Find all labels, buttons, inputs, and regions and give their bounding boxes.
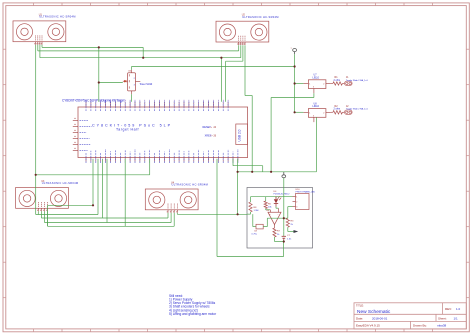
- svg-text:2: 2: [296, 202, 297, 204]
- svg-text:Date:: Date:: [356, 316, 363, 320]
- sub-circuit box outline: [247, 188, 313, 249]
- motor driver block U7 + resistor R1 + connector J1: [308, 80, 326, 89]
- svg-text:1.0: 1.0: [456, 307, 461, 311]
- svg-text:CY8CKIT-059 PSoC 5LP Prototypi: CY8CKIT-059 PSoC 5LP Prototyping Kit Tar…: [62, 99, 125, 103]
- motor driver block U8 + resistor R2 + connector J2: [308, 109, 326, 118]
- junction dot at (294.6,83.5): [294, 82, 296, 84]
- svg-text:2: 2: [323, 113, 324, 115]
- svg-text:RESET: RESET: [203, 126, 212, 129]
- junction dot at (93,205.3): [92, 204, 94, 206]
- svg-text:3: 3: [313, 116, 314, 118]
- junction dot at (98.8,47.4): [98, 46, 100, 48]
- capacitor C7 1.5n: [283, 232, 285, 237]
- MCU U5 CY8CKIT-059 PSoC 5LP: [78, 107, 248, 158]
- junction dot at (98.8,82.5): [98, 81, 100, 83]
- junction dot at (237.6,214.3): [237, 213, 239, 215]
- junction dot at (283.8,218.2): [283, 217, 285, 219]
- phototransistor connector U10: [296, 194, 310, 210]
- wire net bottom bundle line 4 (y=226.3): [47, 211, 49, 226]
- wire net GND bus jog from MCU pin: [232, 159, 234, 166]
- wire net MCU drop to y=205 line: [48, 204, 93, 206]
- wire net U8 GND return: [316, 117, 318, 172]
- svg-text:1.5M: 1.5M: [254, 210, 259, 212]
- svg-text:2 ohm: 2 ohm: [334, 79, 341, 82]
- wire net bottom bundle line 1 (y=214.5): [36, 214, 98, 216]
- svg-text:Drawn By:: Drawn By:: [413, 324, 427, 328]
- junction dot at (283.8,241.5): [283, 240, 285, 242]
- wire net box centre vertical from ground flag: [283, 178, 285, 197]
- wire net GND bus: [238, 171, 317, 173]
- resistor R7 2k: [273, 228, 276, 237]
- wire net servo signal (MCU to servo U6 left pin): [98, 47, 100, 101]
- photodiode D4: [274, 199, 278, 203]
- resistor R5 10k: [264, 201, 267, 209]
- junction dot at (221.4,57.7): [220, 57, 222, 59]
- wire net U1.ECHO (sensor U1 pin3 long run to MCU): [39, 45, 41, 58]
- svg-text:5) Lifting and grabbing arm mo: 5) Lifting and grabbing arm motor: [169, 312, 217, 316]
- wire net U1.GND (sensor U1 pin1 long vertical to bottom bundle): [35, 45, 37, 215]
- wire net U2.GND (sensor U2 pin4 down to GND bus): [244, 45, 246, 95]
- output net arrow: [288, 231, 294, 233]
- +5V power flag: [293, 49, 297, 52]
- wire net U1.VCC (sensor U1 pin2 to sensor U2 pin1): [37, 45, 39, 51]
- svg-text:2 ohm: 2 ohm: [334, 108, 341, 111]
- svg-text:PD333-3C/H0/L2: PD333-3C/H0/L2: [274, 194, 291, 196]
- svg-text:USB 2.0: USB 2.0: [238, 129, 242, 141]
- wire net servo to MCU (servo U6 bottom pin): [131, 94, 133, 102]
- svg-text:3: 3: [296, 207, 297, 209]
- wire net sensor U4 pin4 to box: [176, 213, 178, 215]
- svg-text:XRES: XRES: [205, 134, 212, 137]
- svg-text:Target Half: Target Half: [116, 127, 139, 131]
- title block: [354, 303, 466, 329]
- svg-text:REV:: REV:: [445, 307, 452, 311]
- svg-text:2: 2: [323, 84, 324, 86]
- junction dot at (252.2,171.8): [251, 171, 253, 173]
- wire net sensor U3 pin4 riser: [47, 205, 49, 226]
- svg-text:1/1: 1/1: [454, 316, 459, 320]
- svg-text:EasyEDA V4.9.15: EasyEDA V4.9.15: [356, 324, 380, 328]
- sub-circuit interior wires (top rail): [251, 196, 293, 198]
- wire net servo +5V (servo U6 top pin to +5V rail): [131, 67, 133, 70]
- svg-text:u: u: [291, 48, 292, 50]
- svg-text:1: 1: [309, 84, 310, 86]
- wire net MCU to box-left line: [237, 159, 239, 215]
- junction dot at (271.1,171.8): [270, 171, 272, 173]
- svg-text:0.75u: 0.75u: [252, 233, 258, 235]
- junction dot at (294.6,112.3): [294, 111, 296, 113]
- svg-text:1: 1: [296, 197, 297, 199]
- ultrasonic sensor U4 (bottom-middle): [145, 189, 198, 210]
- svg-text:2018-06-01: 2018-06-01: [372, 316, 388, 320]
- wire net +5V rail: [294, 54, 296, 112]
- svg-text:mba38: mba38: [437, 324, 447, 328]
- resistor R8 1.5M: [249, 202, 252, 212]
- op-amp U9: [268, 212, 281, 224]
- wire net bottom bundle line 3 (y=222.5): [44, 211, 46, 222]
- junction dot at (143.2,57.7): [142, 57, 144, 59]
- svg-text:3: 3: [313, 87, 314, 89]
- ultrasonic sensor U1 (top-left): [13, 21, 66, 42]
- svg-text:L9110: L9110: [313, 76, 320, 79]
- svg-text:1: 1: [309, 113, 310, 115]
- svg-text:New Schematic: New Schematic: [357, 309, 391, 315]
- capacitor C8 0.75u: [252, 214, 254, 226]
- junction dot at (35.7,174.8): [35, 174, 37, 176]
- wire net U2.ECHO (sensor U2 pin3 to MCU): [226, 60, 243, 62]
- svg-text:Sheet:: Sheet:: [438, 316, 447, 320]
- ultrasonic sensor U3 (bottom-left): [16, 188, 69, 209]
- resistor R3 2k: [267, 217, 288, 219]
- wire net U1.TRIG (sensor U1 pin4 to jog to MCU): [41, 45, 43, 48]
- wire net U7 GND return: [313, 93, 315, 97]
- svg-text:CY8CKIT-059 PSoC 5LP: CY8CKIT-059 PSoC 5LP: [92, 124, 172, 128]
- ground flag: [283, 172, 285, 175]
- wire net bottom bundle line 2 (y=218): [40, 211, 42, 218]
- junction dot at (237.6,171.8): [237, 171, 239, 173]
- servo connector U6: [128, 73, 136, 91]
- ultrasonic sensor U2 (top-middle): [216, 21, 269, 42]
- svg-text:L9110: L9110: [313, 105, 320, 108]
- wire net MCU long drop to box bottom: [216, 159, 218, 257]
- junction dot at (294.6,66.5): [294, 65, 296, 67]
